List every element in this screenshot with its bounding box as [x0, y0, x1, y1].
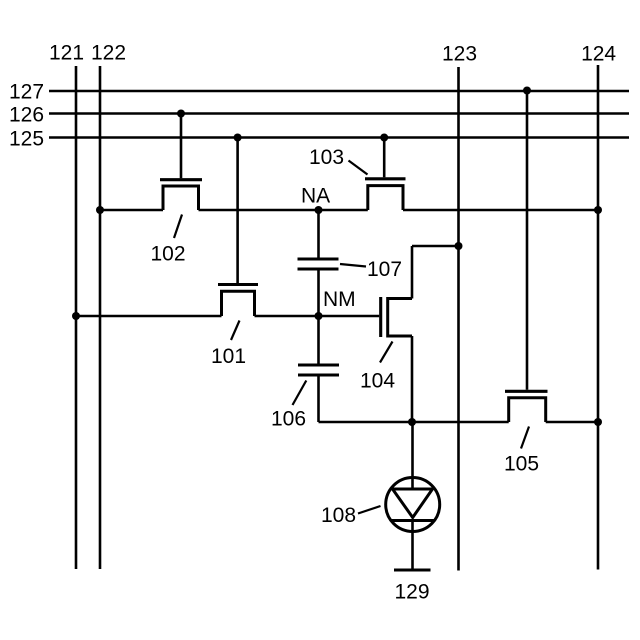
wire: scan line 126 — [49, 112, 629, 115]
transistor 101 — [218, 138, 258, 317]
transistor 104 — [381, 246, 459, 422]
transistor 103 — [365, 138, 406, 211]
svg-text:125: 125 — [9, 128, 44, 151]
svg-text:108: 108 — [321, 504, 356, 527]
wire: vertical line 122 — [99, 66, 102, 569]
wire: scan line 125 — [49, 136, 629, 139]
junction dot: gate of 105 on line 127 — [523, 87, 531, 95]
wire: vertical line 124 — [597, 65, 600, 570]
label 106 leader — [293, 381, 307, 406]
junction dot: NA row on line 124 — [594, 206, 602, 214]
LED 108 — [386, 422, 440, 569]
svg-text:123: 123 — [442, 43, 477, 66]
svg-text:124: 124 — [581, 43, 616, 66]
capacitor 106 — [298, 316, 339, 422]
svg-text:127: 127 — [9, 81, 44, 104]
junction dot: gate of 102 on line 126 — [177, 110, 185, 118]
svg-text:NA: NA — [301, 185, 330, 208]
junction dot: gate of 101 on line 125 — [234, 134, 242, 142]
svg-text:129: 129 — [394, 581, 429, 604]
label 104 leader — [380, 342, 393, 363]
svg-text:107: 107 — [367, 258, 402, 281]
node NA wire: segment from transistor 103 to line 124 — [403, 209, 598, 212]
wire: bottom row from capacitor 106 to transistor 105 — [319, 421, 509, 424]
junction dot: node NA — [315, 206, 323, 214]
transistor 105 — [505, 91, 548, 423]
wire: bottom row from transistor 105 to line 124 — [546, 421, 598, 424]
node NA wire: segment from transistor 102 to transistor 103 — [199, 209, 368, 212]
label 105 leader — [521, 427, 529, 449]
wire: vertical line 123 — [457, 67, 460, 571]
svg-text:101: 101 — [211, 345, 246, 368]
junction dot: node NM — [315, 312, 323, 320]
transistor 102 — [160, 114, 202, 211]
label 107 leader — [340, 264, 366, 267]
node NA wire: segment from line 122 to transistor 102 — [100, 209, 163, 212]
terminal 129 — [394, 569, 431, 572]
capacitor 107 — [298, 210, 339, 316]
svg-text:105: 105 — [504, 453, 539, 476]
svg-text:121: 121 — [49, 42, 84, 65]
svg-text:122: 122 — [91, 42, 126, 65]
label 101 leader — [231, 321, 240, 341]
label 108 leader — [358, 506, 381, 514]
node NM wire: segment from line 121 to transistor 101 — [76, 315, 222, 318]
label 102 leader — [174, 215, 182, 239]
svg-text:NM: NM — [323, 288, 356, 311]
node NM wire: segment from transistor 101 to gate of transistor 104 — [255, 315, 380, 318]
junction dot: gate of 103 on line 125 — [380, 134, 388, 142]
junction dot: bottom row on line 124 — [594, 418, 602, 426]
junction dot: drain of 104 on line 123 — [455, 242, 463, 250]
svg-text:106: 106 — [271, 408, 306, 431]
junction dot: bottom row LED branch — [408, 418, 416, 426]
wire: scan line 127 — [49, 90, 629, 93]
svg-text:104: 104 — [360, 370, 395, 393]
svg-text:103: 103 — [309, 146, 344, 169]
wire: vertical line 121 — [75, 66, 78, 569]
svg-text:126: 126 — [9, 104, 44, 127]
junction dot: NA row on line 122 — [96, 206, 104, 214]
label 103 leader — [349, 161, 368, 175]
svg-text:102: 102 — [150, 243, 185, 266]
junction dot: NM row on line 121 — [72, 312, 80, 320]
